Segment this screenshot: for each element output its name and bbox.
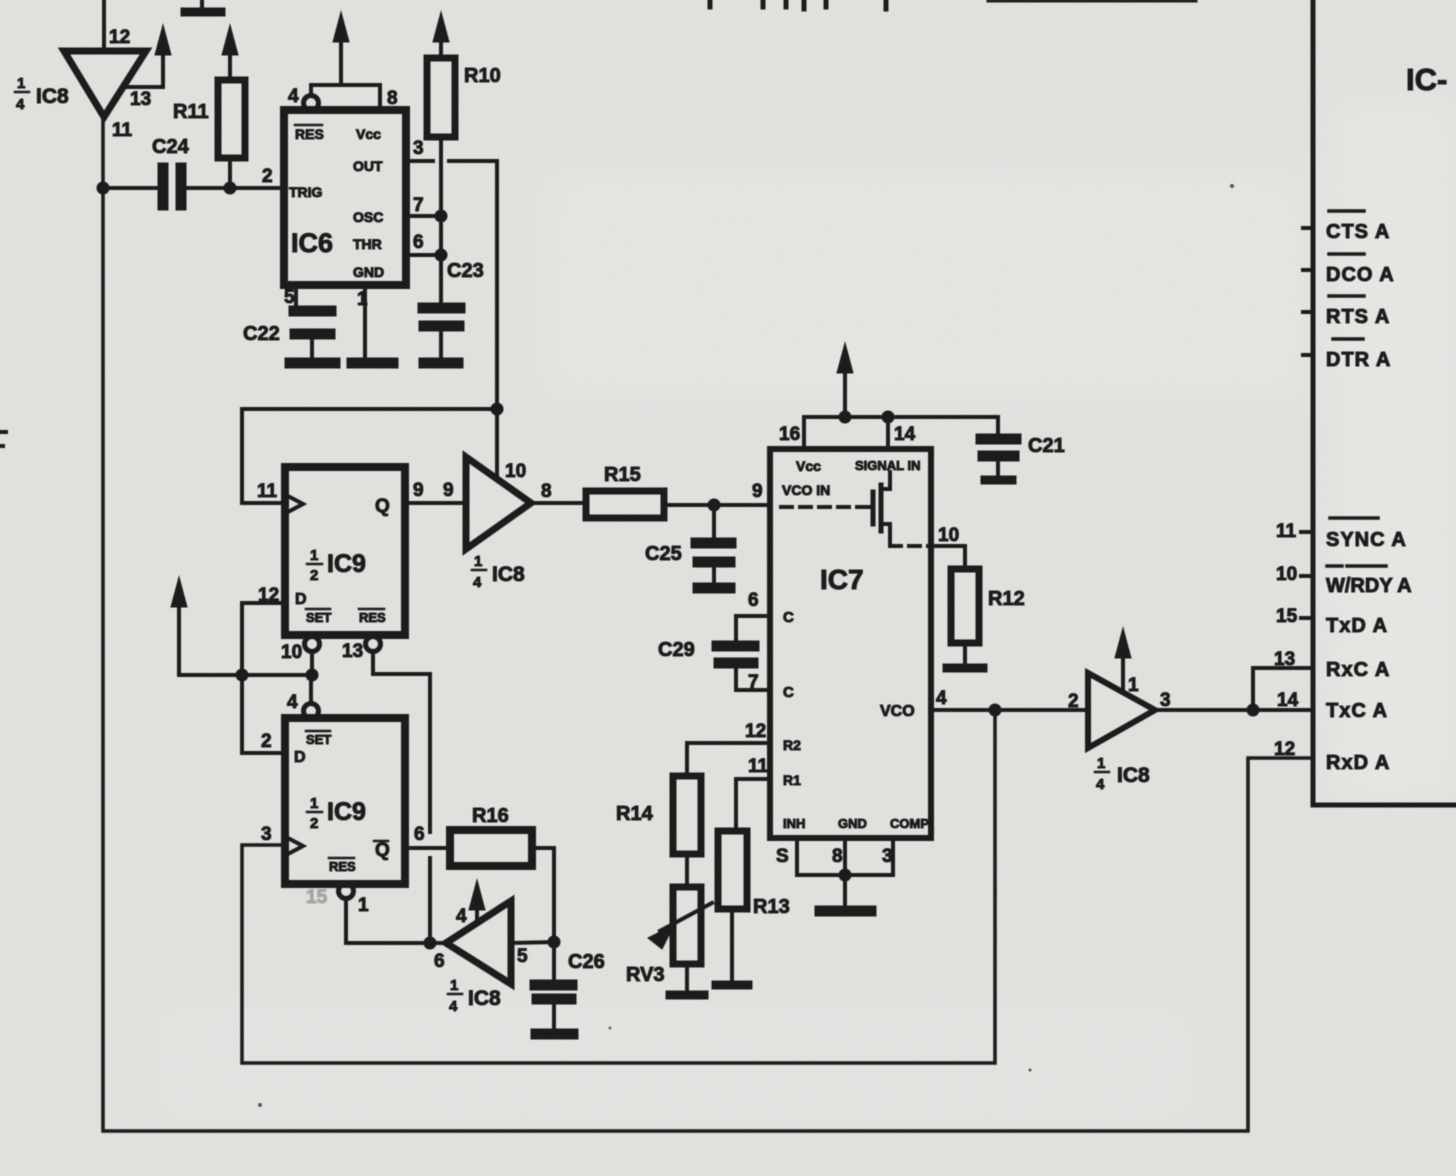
wire remnants cut off at top edge [710,0,1196,9]
inverter U8d (1/4 IC8, 2 -> 3) [1088,628,1155,748]
svg-text:IC8: IC8 [492,563,525,586]
svg-text:6: 6 [748,590,759,611]
svg-text:C22: C22 [243,323,280,345]
resistor R15 [586,491,769,518]
capacitor C24 [97,168,284,205]
svg-text:8: 8 [832,846,843,867]
net DCO A [1303,254,1395,286]
wire VCO out to inverter U8d [931,704,1088,717]
svg-text:Vcc: Vcc [796,458,821,474]
svg-text:IC-: IC- [1406,62,1447,97]
svg-text:1: 1 [310,795,318,812]
resistor R10 [427,12,455,302]
svg-text:14: 14 [1277,690,1299,711]
mark at left edge [0,432,6,446]
capacitor C25 [696,505,731,588]
IC7 box [770,449,931,838]
inverter U8a (1/4 IC8, pins 12/13/11) [64,0,146,117]
svg-text:10: 10 [1276,564,1297,585]
svg-text:Q: Q [375,840,390,861]
net RTS A [1303,296,1390,328]
net TxD A (pin 15) [1276,606,1388,637]
svg-text:15: 15 [306,887,328,908]
svg-text:12: 12 [109,27,130,48]
svg-text:TxD A: TxD A [1326,615,1388,637]
paper specks (decorative) [258,1103,262,1107]
net CTS A [1303,211,1390,243]
svg-text:Vcc: Vcc [356,126,381,142]
svg-text:1: 1 [474,553,482,570]
svg-text:COMP: COMP [890,816,929,831]
net W/RDY A (pin 10) [1276,564,1412,597]
svg-text:C23: C23 [447,260,484,282]
svg-text:12: 12 [1274,739,1295,760]
svg-text:4: 4 [449,998,458,1015]
ground (top left stub) [185,0,221,12]
svg-text:4: 4 [456,906,467,927]
svg-text:C: C [783,609,794,626]
svg-text:IC8: IC8 [36,85,69,108]
inverter U8c (1/4 IC8 pointing left) [446,901,561,984]
svg-text:R14: R14 [616,803,654,825]
wire U8d output to TxC A and RxC A [1155,668,1309,717]
svg-text:C21: C21 [1028,435,1065,457]
pin 4 bubble and Vcc bracket of IC6 [304,85,381,111]
power arrow (set/reset rail) [171,577,319,682]
svg-text:1: 1 [1128,675,1139,696]
svg-text:W/RDY A: W/RDY A [1326,575,1412,597]
capacitor C26 [535,942,572,1029]
svg-text:TRIG: TRIG [289,184,323,200]
label 1/4 IC8 (U8b) [472,553,525,591]
svg-text:3: 3 [413,138,424,159]
capacitor C29 (pins 6/7) [717,616,770,690]
svg-text:SET: SET [306,732,331,747]
net SYNC A (pin 11) [1276,518,1407,551]
svg-text:9: 9 [752,481,763,502]
power arrow (U8c pin 4) [469,880,485,922]
pin 13 bubble (RES of U9a) and wire down to inverter input wire [366,637,437,950]
svg-text:R2: R2 [783,737,801,753]
svg-text:14: 14 [894,424,916,445]
svg-text:R16: R16 [472,805,509,827]
svg-text:6: 6 [414,824,425,845]
svg-text:OSC: OSC [353,209,383,225]
svg-text:GND: GND [353,264,384,280]
inverter U8b (1/4 IC8, 9 -> 8) [466,457,586,549]
svg-text:CTS A: CTS A [1326,221,1390,243]
flip-flop U9a (1/2 IC9 upper) [285,467,405,635]
svg-text:RES: RES [329,859,356,874]
svg-text:2: 2 [1068,691,1079,712]
svg-text:R15: R15 [604,464,641,486]
svg-text:5: 5 [517,946,528,967]
svg-text:3: 3 [882,846,893,867]
label 1/4 IC8 (U8c) [448,977,501,1015]
ground (IC7 bottom pins 5/8/3) [797,839,893,911]
IC (right, partial Z80 SIO) left edge and bottom edge [1313,0,1456,805]
svg-text:1: 1 [1097,755,1105,772]
svg-text:3: 3 [261,824,272,845]
svg-text:R12: R12 [988,588,1025,610]
svg-text:2: 2 [262,166,273,187]
pin 4 bubble (SET of U9b) [304,675,319,719]
svg-text:THR: THR [353,236,382,252]
net RxC A (pin 13) [1274,649,1390,681]
svg-text:C25: C25 [645,543,682,565]
resistor R16 [450,830,554,942]
svg-text:C: C [783,684,794,701]
svg-text:TxC A: TxC A [1326,700,1388,722]
svg-text:IC8: IC8 [1117,764,1150,787]
potentiometer RV3 [648,854,712,995]
svg-text:SIGNAL IN: SIGNAL IN [855,458,921,473]
node: OUT junction going to FF clock and gate pin 10 [242,403,504,504]
wire clock U9b feedback from VCO line [242,710,995,1063]
ground (below C26) [536,1029,573,1040]
svg-text:C29: C29 [658,639,695,661]
svg-text:2: 2 [310,815,318,832]
svg-text:15: 15 [1276,606,1298,627]
svg-text:IC9: IC9 [327,550,366,578]
svg-text:6: 6 [413,232,424,253]
svg-text:C26: C26 [568,951,605,973]
svg-text:2: 2 [310,567,318,584]
wire pin 6 THR [406,249,448,262]
svg-text:5: 5 [284,287,295,308]
wire Q6 to R16 [405,846,450,850]
svg-text:13: 13 [1274,649,1295,670]
svg-text:D: D [295,591,307,608]
svg-text:11: 11 [257,481,278,502]
svg-text:S: S [776,846,789,867]
wire Q to inverter U8b [405,501,466,505]
svg-text:DTR A: DTR A [1326,349,1391,371]
svg-text:11: 11 [1276,521,1297,542]
wire from rail down to D of U9b [242,675,285,753]
svg-text:SYNC A: SYNC A [1326,529,1407,551]
svg-text:10: 10 [505,461,526,482]
svg-text:VCO IN: VCO IN [782,482,830,498]
wire: long feedback loop left side and bottom to RxD A [103,118,1309,1131]
pin 1 bubble of U9b and wire to inverter U8c output [339,884,446,944]
label 1/4 IC8 (U8a) [15,75,69,113]
svg-text:7: 7 [413,195,424,216]
svg-text:4: 4 [1096,776,1105,793]
net RxD A (pin 12) [1274,739,1390,774]
svg-text:4: 4 [288,86,299,107]
svg-text:13: 13 [130,89,151,110]
svg-text:VCO: VCO [880,703,915,720]
net DTR A [1303,339,1391,371]
svg-text:1: 1 [357,289,368,310]
resistor R12 [931,546,983,668]
wire pin 7 OSC [406,210,448,223]
svg-text:DCO A: DCO A [1326,264,1395,286]
ground (below C22) [290,358,335,369]
svg-text:6: 6 [434,951,445,972]
wire pin 3 OUT of IC6 [406,161,497,409]
svg-text:RES: RES [359,610,386,625]
svg-text:IC6: IC6 [291,228,333,258]
svg-text:IC9: IC9 [327,798,366,826]
mosfet (inside IC7) with dashed gate/source nets [781,472,930,546]
svg-text:2: 2 [261,731,272,752]
svg-text:IC7: IC7 [820,564,864,595]
net TxC A (pin 14) [1277,690,1388,722]
svg-text:1: 1 [310,547,318,564]
svg-text:7: 7 [748,672,759,693]
svg-text:9: 9 [443,480,454,501]
svg-text:R10: R10 [464,65,501,87]
svg-text:RES: RES [295,126,324,142]
svg-text:4: 4 [16,96,25,113]
svg-text:RxC A: RxC A [1326,659,1390,681]
wire D input of U9a [242,603,285,675]
wire pin 1 of IC6 to ground [352,285,393,363]
svg-text:C24: C24 [152,136,190,158]
svg-text:RV3: RV3 [626,964,665,986]
svg-text:R13: R13 [753,896,790,918]
svg-text:8: 8 [387,88,398,109]
flip-flop U9b (1/2 IC9 lower) [285,718,405,884]
svg-text:SET: SET [306,610,331,625]
svg-text:1: 1 [358,895,369,916]
pin 10 bubble (SET of U9a) [305,637,320,676]
svg-text:R11: R11 [173,101,209,123]
svg-text:Q: Q [375,496,390,517]
svg-text:10: 10 [938,525,959,546]
svg-text:INH: INH [783,816,805,831]
svg-text:1: 1 [450,977,458,994]
svg-text:GND: GND [838,816,867,831]
svg-text:16: 16 [779,424,800,445]
capacitor C23 [423,308,460,363]
resistor R11 [218,25,245,188]
svg-text:4: 4 [473,574,482,591]
power rail on top of IC7 (pins 16 and 14) [804,343,998,449]
svg-text:OUT: OUT [353,158,383,174]
resistor R14 (pin 12, R2) [673,743,770,854]
svg-text:RxD A: RxD A [1326,752,1390,774]
svg-text:10: 10 [281,642,302,663]
svg-text:8: 8 [541,481,552,502]
capacitor C21 [981,417,1016,480]
svg-text:R1: R1 [783,772,801,788]
svg-text:11: 11 [748,756,769,777]
svg-text:1: 1 [17,75,25,92]
svg-text:13: 13 [342,641,363,662]
svg-text:3: 3 [1160,690,1171,711]
power arrow (IC6 Vcc) [333,12,349,85]
capacitor C22 with pin 5 [294,285,331,357]
svg-text:D: D [294,749,306,766]
svg-text:RTS A: RTS A [1326,306,1390,328]
power arrow (pin 13 of U8a) [127,25,171,87]
svg-text:4: 4 [287,692,298,713]
svg-text:11: 11 [112,120,133,141]
IC6 timer box [284,110,406,285]
svg-text:9: 9 [413,480,424,501]
svg-text:4: 4 [936,688,947,709]
svg-text:IC8: IC8 [468,987,501,1010]
label 1/4 IC8 (U8d) [1095,755,1150,793]
resistor R13 (pin 11, R1) [716,779,770,985]
svg-text:12: 12 [745,721,766,742]
